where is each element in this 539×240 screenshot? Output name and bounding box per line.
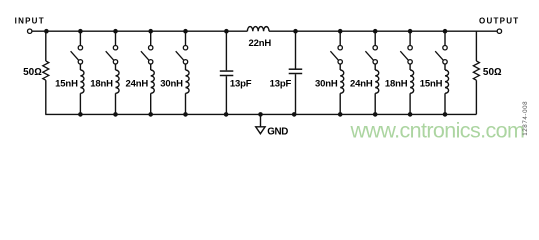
junction dot R1 top (44, 29, 49, 34)
svg-text:15nH: 15nH (420, 78, 443, 89)
junction dot L7 bottom (408, 112, 413, 117)
inductor L5 30nH (340, 64, 344, 115)
svg-text:22nH: 22nH (248, 38, 271, 49)
svg-text:18nH: 18nH (385, 78, 408, 89)
switch S8 (435, 46, 447, 65)
junction dot L7 top (408, 29, 413, 34)
value label 22nH (248, 38, 271, 49)
value label 13pF left (230, 78, 252, 89)
junction dot C2 bottom (292, 112, 297, 117)
svg-text:INPUT: INPUT (15, 16, 45, 25)
inductor L2 18nH (116, 64, 120, 115)
wire L4 branch upper (185, 31, 187, 45)
watermark www.cntronics.com (350, 119, 525, 143)
junction dot L5 bottom (338, 112, 343, 117)
junction dot L4 bottom (183, 112, 188, 117)
junction dot C1 bottom (224, 112, 229, 117)
switch S7 (400, 46, 412, 65)
inductor L6 24nH (375, 64, 379, 115)
value label 13pF right (270, 78, 292, 89)
value label 18nH (90, 78, 113, 89)
value label 24nH (125, 78, 148, 89)
junction dot L3 bottom (148, 112, 153, 117)
value label 15nH (55, 78, 78, 89)
resistor R2 50ohm (output termination) (473, 31, 479, 114)
label GND (267, 127, 288, 138)
junction dot C2 top (293, 29, 298, 34)
junction dot L5 top (338, 29, 343, 34)
label OUTPUT (479, 16, 519, 25)
value label 30nH (315, 78, 338, 89)
junction dot C1 top (224, 29, 229, 34)
switch S6 (365, 46, 377, 65)
ground symbol GND (256, 127, 265, 134)
svg-text:15nH: 15nH (55, 78, 78, 89)
junction dot L6 bottom (373, 112, 378, 117)
switch S5 (330, 46, 342, 65)
wire L8 branch upper (444, 31, 446, 45)
junction dot L2 bottom (113, 112, 118, 117)
node INPUT terminal (28, 29, 32, 33)
svg-text:30nH: 30nH (315, 78, 338, 89)
svg-text:www.cntronics.com: www.cntronics.com (350, 119, 525, 143)
capacitor C2 13pF (289, 31, 303, 114)
wire GND stub (260, 114, 262, 126)
switch S4 (176, 46, 188, 65)
junction dot GND tap (258, 112, 263, 117)
inductor L8 15nH (445, 64, 449, 115)
wire top rail right (22nH to output) (269, 30, 497, 32)
junction dot L6 top (373, 29, 378, 34)
junction dot L1 bottom (78, 112, 83, 117)
junction dot L8 bottom (443, 112, 448, 117)
inductor L3 24nH (151, 64, 155, 115)
switch S3 (141, 46, 153, 65)
switch S2 (106, 46, 118, 65)
value label 50ohm left (23, 67, 42, 78)
junction dot L8 top (443, 29, 448, 34)
resistor R1 50ohm (input termination) (43, 31, 49, 114)
svg-text:13pF: 13pF (270, 78, 292, 89)
svg-text:50Ω: 50Ω (483, 67, 502, 78)
figure number 12874-008 (rotated) (522, 101, 529, 136)
wire L7 branch upper (409, 31, 411, 45)
switch S1 (71, 46, 83, 65)
value label 18nH (385, 78, 408, 89)
node OUTPUT terminal (497, 29, 501, 33)
junction dot L2 top (113, 29, 118, 34)
value label 30nH (160, 78, 183, 89)
inductor L7 18nH (410, 64, 414, 115)
svg-text:30nH: 30nH (160, 78, 183, 89)
svg-text:12874-008: 12874-008 (522, 101, 529, 136)
value label 24nH (350, 78, 373, 89)
inductor L1 15nH (80, 64, 84, 115)
wire top rail left (input to 22nH) (32, 30, 248, 32)
svg-text:24nH: 24nH (125, 78, 148, 89)
svg-text:13pF: 13pF (230, 78, 252, 89)
wire L3 branch upper (150, 31, 152, 45)
svg-text:GND: GND (267, 127, 288, 138)
junction dot L3 top (148, 29, 153, 34)
svg-text:50Ω: 50Ω (23, 67, 42, 78)
inductor L4 30nH (186, 64, 190, 115)
wire L6 branch upper (374, 31, 376, 45)
svg-text:OUTPUT: OUTPUT (479, 16, 519, 25)
wire L1 branch upper (79, 31, 81, 45)
wire L2 branch upper (115, 31, 117, 45)
wire bottom rail (45, 113, 476, 115)
capacitor C1 13pF (220, 31, 234, 114)
svg-text:24nH: 24nH (350, 78, 373, 89)
inductor 22nH (series) (247, 27, 269, 32)
svg-text:18nH: 18nH (90, 78, 113, 89)
value label 50ohm right (483, 67, 502, 78)
junction dot L4 top (183, 29, 188, 34)
value label 15nH (420, 78, 443, 89)
wire L5 branch upper (339, 31, 341, 45)
junction dot L1 top (78, 29, 83, 34)
label INPUT (15, 16, 45, 25)
